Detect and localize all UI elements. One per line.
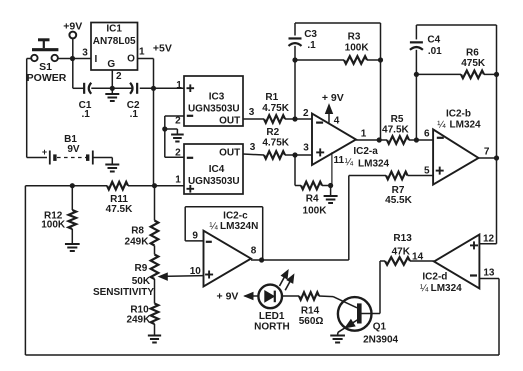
svg-text:IC3: IC3: [209, 92, 225, 103]
svg-text:LM324: LM324: [358, 159, 390, 170]
svg-text:13: 13: [483, 267, 495, 278]
svg-text:G: G: [107, 59, 115, 70]
svg-text:R9: R9: [135, 263, 148, 274]
svg-text:IC2-c: IC2-c: [223, 211, 248, 222]
svg-text:+9V: +9V: [63, 21, 82, 33]
svg-text:UGN3503U: UGN3503U: [188, 176, 240, 187]
svg-text:R8: R8: [131, 226, 144, 237]
svg-text:5: 5: [424, 166, 430, 177]
svg-text:AN78L05: AN78L05: [93, 36, 136, 47]
svg-text:R13: R13: [393, 233, 412, 244]
svg-text:R3: R3: [348, 32, 361, 43]
svg-text:¼: ¼: [345, 156, 354, 168]
svg-text:R4: R4: [306, 194, 319, 205]
svg-text:47K: 47K: [392, 246, 411, 257]
svg-text:11: 11: [334, 155, 345, 166]
svg-text:4.75K: 4.75K: [262, 103, 289, 114]
svg-text:NORTH: NORTH: [254, 322, 290, 333]
svg-text:100K: 100K: [303, 205, 328, 216]
svg-text:+ 9V: + 9V: [322, 92, 344, 104]
svg-text:14: 14: [412, 251, 424, 262]
svg-text:4.75K: 4.75K: [262, 137, 289, 148]
svg-text:47.5K: 47.5K: [382, 125, 409, 136]
svg-text:47.5K: 47.5K: [106, 204, 133, 215]
svg-text:12: 12: [483, 233, 495, 244]
svg-text:100K: 100K: [41, 220, 66, 231]
svg-text:R1: R1: [265, 92, 278, 103]
svg-text:IC2-d: IC2-d: [422, 272, 447, 283]
svg-text:+: +: [42, 147, 47, 157]
svg-text:R5: R5: [391, 114, 404, 125]
svg-text:45.5K: 45.5K: [385, 195, 412, 206]
svg-text:LM324: LM324: [450, 120, 482, 131]
svg-text:IC2-a: IC2-a: [353, 146, 378, 157]
svg-text:¼: ¼: [437, 119, 446, 131]
svg-text:I: I: [95, 54, 98, 65]
svg-text:3: 3: [249, 107, 255, 118]
svg-text:2: 2: [116, 71, 122, 82]
svg-text:1: 1: [361, 128, 367, 139]
svg-text:1: 1: [176, 80, 182, 91]
svg-text:4: 4: [334, 115, 340, 126]
svg-text:LED1: LED1: [259, 311, 285, 322]
svg-text:2: 2: [303, 108, 309, 119]
svg-text:3: 3: [250, 142, 256, 153]
svg-text:1: 1: [175, 175, 181, 186]
svg-text:560Ω: 560Ω: [299, 316, 324, 327]
svg-text:IC4: IC4: [209, 164, 225, 175]
svg-text:8: 8: [251, 246, 257, 257]
svg-text:¼: ¼: [420, 282, 429, 294]
svg-text:.1: .1: [82, 109, 91, 120]
svg-text:IC1: IC1: [106, 23, 122, 34]
svg-text:C4: C4: [427, 34, 440, 45]
svg-text:3: 3: [82, 48, 88, 59]
svg-text:9V: 9V: [67, 144, 80, 155]
svg-text:9: 9: [192, 231, 198, 242]
svg-text:7: 7: [484, 147, 490, 158]
svg-text:C3: C3: [304, 29, 317, 40]
svg-text:50K: 50K: [132, 276, 151, 287]
svg-text:+5V: +5V: [153, 43, 172, 55]
svg-text:2: 2: [175, 148, 181, 159]
svg-text:LM324: LM324: [431, 283, 463, 294]
svg-text:OUT: OUT: [219, 147, 240, 158]
svg-text:+ 9V: + 9V: [217, 291, 239, 303]
svg-text:.1: .1: [307, 40, 316, 51]
svg-text:LM324N: LM324N: [220, 221, 258, 232]
svg-text:OUT: OUT: [219, 115, 240, 126]
svg-text:O: O: [127, 53, 135, 64]
svg-text:R14: R14: [301, 305, 320, 316]
svg-text:¼: ¼: [209, 220, 218, 232]
svg-text:POWER: POWER: [27, 72, 67, 84]
svg-text:475K: 475K: [461, 58, 486, 69]
svg-text:249K: 249K: [125, 237, 150, 248]
svg-text:SENSITIVITY: SENSITIVITY: [93, 287, 154, 298]
svg-text:3: 3: [303, 143, 309, 154]
svg-text:.01: .01: [428, 46, 442, 57]
svg-text:.1: .1: [130, 109, 139, 120]
svg-text:1: 1: [139, 47, 145, 58]
svg-text:2N3904: 2N3904: [363, 335, 398, 346]
svg-text:IC2-b: IC2-b: [446, 109, 471, 120]
svg-text:Q1: Q1: [373, 322, 387, 333]
svg-text:249K: 249K: [126, 315, 151, 326]
svg-text:R6: R6: [466, 47, 479, 58]
svg-text:UGN3503U: UGN3503U: [188, 104, 240, 115]
svg-text:6: 6: [424, 128, 430, 139]
svg-text:2: 2: [175, 115, 181, 126]
svg-text:100K: 100K: [345, 42, 370, 53]
svg-text:10: 10: [190, 266, 202, 277]
